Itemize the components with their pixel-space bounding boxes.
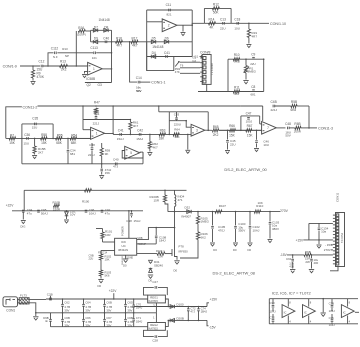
svg-text:6K8: 6K8 <box>291 108 297 112</box>
svg-text:G2: G2 <box>192 59 196 63</box>
svg-text:350V: 350V <box>238 229 245 233</box>
wire V+ rail <box>269 298 358 300</box>
wire <box>228 91 264 93</box>
ground <box>210 242 215 244</box>
svg-text:CON/1.10: CON/1.10 <box>270 22 286 26</box>
resistor R9 <box>32 66 34 70</box>
resistor R66 <box>230 129 236 132</box>
svg-text:REG2: REG2 <box>150 323 158 327</box>
wire feedback top <box>147 9 193 11</box>
svg-text:39V: 39V <box>85 309 90 313</box>
wire rail <box>146 10 148 71</box>
resistor R100B <box>164 190 166 195</box>
wire inv input <box>147 21 163 23</box>
diode D9 <box>93 40 97 44</box>
wire <box>52 124 54 138</box>
svg-text:4K7: 4K7 <box>133 124 139 128</box>
svg-text:D0: D0 <box>248 248 252 252</box>
svg-text:C30: C30 <box>270 301 276 305</box>
svg-text:R100: R100 <box>82 200 90 204</box>
svg-text:T3 CON2: T3 CON2 <box>341 232 344 243</box>
wire reg1 gnd pin <box>155 303 157 313</box>
svg-text:R7: R7 <box>10 133 14 137</box>
wire POWER <box>128 210 130 212</box>
wire <box>219 129 262 131</box>
svg-text:D0: D0 <box>233 248 237 252</box>
wire <box>103 241 115 243</box>
svg-text:10U: 10U <box>263 143 269 147</box>
svg-text:+15V: +15V <box>210 297 218 301</box>
wire <box>21 124 23 138</box>
ground <box>248 242 253 244</box>
wire <box>206 84 208 91</box>
svg-text:15AJ: 15AJ <box>117 137 124 141</box>
diode D7 <box>93 29 97 33</box>
svg-text:7: 7 <box>267 126 269 130</box>
wire inv mid <box>169 120 186 122</box>
wire <box>275 105 291 107</box>
op-amp IC5B <box>162 19 177 32</box>
svg-text:C43: C43 <box>174 113 180 117</box>
op-amp IC2D <box>125 146 140 159</box>
svg-text:8: 8 <box>289 301 291 305</box>
resistor R16 <box>78 29 85 32</box>
ground <box>246 44 251 46</box>
wire rail mid <box>36 312 157 314</box>
svg-text:39V: 39V <box>127 323 132 327</box>
resistor R103 <box>99 270 102 276</box>
svg-text:+22V: +22V <box>6 204 14 208</box>
svg-text:R47: R47 <box>94 100 100 104</box>
svg-text:15U: 15U <box>32 126 38 130</box>
resistor R108 <box>137 253 157 255</box>
wire rail <box>111 30 113 82</box>
ground mains <box>33 316 38 318</box>
svg-text:15R: 15R <box>154 199 160 203</box>
svg-text:22U: 22U <box>250 62 256 66</box>
wire loop <box>147 42 174 71</box>
svg-text:C40: C40 <box>103 36 109 40</box>
svg-text:104J: 104J <box>329 323 336 327</box>
svg-text:C112: C112 <box>51 46 59 50</box>
svg-text:4: 4 <box>289 320 291 324</box>
resistor R58 <box>41 137 48 140</box>
capacitor C8 <box>252 89 255 91</box>
capacitor C42 <box>138 133 140 136</box>
capacitor C66 <box>83 313 85 320</box>
capacitor C6B <box>104 299 106 304</box>
svg-text:200R: 200R <box>294 129 302 133</box>
svg-text:IRF830: IRF830 <box>179 250 189 254</box>
svg-text:184J: 184J <box>159 239 166 243</box>
svg-text:15AJ: 15AJ <box>134 219 141 223</box>
svg-text:KA7815: KA7815 <box>149 299 159 303</box>
svg-text:1: 1 <box>96 132 98 136</box>
wire noninv input <box>85 71 88 73</box>
svg-text:IC: IC <box>343 310 346 314</box>
svg-text:471: 471 <box>178 198 183 202</box>
svg-text:104J: 104J <box>329 309 336 313</box>
capacitor C67 <box>104 313 106 320</box>
wire <box>112 106 114 134</box>
capacitor C71 <box>133 313 135 319</box>
svg-text:DIG: DIG <box>20 225 25 229</box>
resistor R61 <box>130 134 132 136</box>
svg-text:473: 473 <box>113 164 118 168</box>
wire <box>308 106 310 128</box>
capacitor C95 <box>37 209 40 211</box>
resistor R100 <box>85 189 92 192</box>
capacitor D98 <box>50 313 52 320</box>
svg-text:D7: D7 <box>94 25 98 29</box>
wire +rail top <box>24 189 186 191</box>
wire <box>147 41 193 43</box>
resistor R102 <box>100 251 102 255</box>
svg-text:C40: C40 <box>113 158 119 162</box>
capacitor C35b <box>331 314 333 319</box>
capacitor C6B <box>62 313 64 320</box>
svg-text:4n: 4n <box>45 319 49 323</box>
svg-text:C35: C35 <box>32 117 38 121</box>
wire <box>204 7 231 9</box>
wire -15V rail <box>168 319 207 321</box>
capacitor C105 <box>212 211 214 213</box>
capacitor C35 <box>34 123 36 126</box>
capacitor C6B <box>125 313 127 320</box>
capacitor C47 <box>240 130 242 132</box>
svg-text:R17: R17 <box>132 37 138 41</box>
svg-text:CON11-2: CON11-2 <box>23 105 38 109</box>
wire <box>192 23 204 25</box>
capacitor C29 <box>49 297 52 299</box>
wire <box>289 127 295 129</box>
svg-text:681: 681 <box>70 152 75 156</box>
svg-text:- 15V: - 15V <box>325 243 332 247</box>
IC REG1 KA7815 <box>148 295 166 303</box>
svg-text:C113: C113 <box>90 46 98 50</box>
wire C112 branch <box>48 53 54 66</box>
wire <box>268 299 270 324</box>
wire <box>301 127 317 129</box>
svg-text:150R: 150R <box>53 207 61 211</box>
capacitor C11 <box>168 9 170 12</box>
svg-text:270V: 270V <box>324 248 331 252</box>
ground <box>181 32 186 34</box>
svg-text:15AJ: 15AJ <box>136 137 143 141</box>
wire output <box>177 24 192 26</box>
svg-text:50K: 50K <box>213 11 220 15</box>
svg-text:5MEG: 5MEG <box>248 70 257 74</box>
svg-text:50V: 50V <box>285 134 290 138</box>
wire <box>77 137 91 139</box>
svg-text:15K: 15K <box>9 141 16 145</box>
resistor R12 <box>212 7 219 10</box>
svg-text:C13: C13 <box>220 17 226 21</box>
svg-text:KA7915: KA7915 <box>149 327 159 331</box>
svg-text:R18: R18 <box>116 37 122 41</box>
ground <box>268 239 273 241</box>
capacitor C4B <box>272 105 274 108</box>
ground <box>64 219 69 221</box>
wire feedback bus <box>38 105 241 107</box>
capacitor C74 <box>198 306 200 308</box>
capacitor C48 <box>287 127 289 130</box>
wire rail <box>90 30 92 42</box>
svg-text:5: 5 <box>130 151 132 155</box>
svg-text:15U: 15U <box>37 68 44 72</box>
svg-text:D0: D0 <box>174 269 178 273</box>
svg-text:10AJ: 10AJ <box>89 211 96 215</box>
wire <box>227 59 229 91</box>
capacitor C72 <box>188 306 190 308</box>
trimmer PR1 <box>245 59 247 65</box>
ground <box>317 244 322 246</box>
wire output <box>105 133 114 135</box>
wire CON11 bottom <box>330 267 338 271</box>
transistor Q100 <box>171 249 173 256</box>
wire <box>142 152 144 164</box>
svg-text:221J: 221J <box>88 153 95 157</box>
wire output <box>205 129 212 131</box>
svg-text:9K: 9K <box>105 152 109 156</box>
resistor R19 <box>248 23 250 29</box>
wire HV rail <box>168 211 280 213</box>
svg-text:15K: 15K <box>229 134 236 138</box>
capacitor C34 <box>67 138 69 140</box>
wire <box>140 151 143 153</box>
capacitor C104 <box>309 222 333 224</box>
resistor R64 <box>173 133 179 136</box>
svg-text:C4B: C4B <box>271 100 277 104</box>
svg-text:18K: 18K <box>174 135 179 139</box>
svg-text:D100: D100 <box>176 302 184 306</box>
svg-text:22U: 22U <box>220 27 226 31</box>
svg-text:R10B: R10B <box>53 201 61 205</box>
wire drain column <box>174 207 176 248</box>
svg-text:C36: C36 <box>24 133 30 137</box>
svg-text:CON/1-1: CON/1-1 <box>151 81 165 85</box>
diode D8 <box>104 29 108 33</box>
capacitor C6D <box>125 299 127 304</box>
ground <box>147 152 152 154</box>
svg-text:C38: C38 <box>89 143 95 147</box>
svg-text:C18: C18 <box>234 17 240 21</box>
svg-text:15K: 15K <box>105 171 110 175</box>
ground <box>309 269 314 271</box>
wire <box>21 138 23 163</box>
wire R16 branch <box>75 31 77 66</box>
capacitor C28 <box>144 330 154 336</box>
svg-text:18K: 18K <box>159 136 166 140</box>
resistor R62 <box>149 134 151 136</box>
op-amp IC6 power <box>303 305 316 318</box>
wire feedback <box>85 82 112 84</box>
wire <box>241 105 263 107</box>
svg-text:1: 1 <box>153 316 155 320</box>
IC U9 UC3843 <box>115 238 137 255</box>
svg-text:REG1: REG1 <box>150 296 158 300</box>
svg-text:D5: D5 <box>152 37 156 41</box>
capacitor C94 <box>22 209 25 211</box>
svg-text:47u: 47u <box>105 211 110 215</box>
svg-text:39V: 39V <box>64 309 69 313</box>
wire <box>23 190 25 211</box>
wire <box>91 29 112 31</box>
capacitor C113 <box>93 52 95 55</box>
wire bus tap <box>158 106 160 112</box>
ground <box>32 155 37 157</box>
wire gnd stub <box>187 134 189 149</box>
svg-text:R16: R16 <box>78 26 84 30</box>
wire <box>140 81 150 83</box>
svg-text:4: 4 <box>349 320 351 324</box>
svg-text:C41: C41 <box>118 128 124 132</box>
resistor R107 <box>215 210 222 213</box>
ground TL072 <box>322 299 324 313</box>
svg-text:39V: 39V <box>106 323 111 327</box>
svg-text:R65: R65 <box>213 125 219 129</box>
svg-text:POWER: POWER <box>121 226 125 236</box>
diode D5 <box>151 40 155 44</box>
resistor R5B <box>291 104 297 107</box>
svg-text:R55: R55 <box>57 133 63 137</box>
svg-text:39V: 39V <box>106 309 111 313</box>
IC REG2 KA7915 <box>148 323 166 331</box>
svg-text:D0: D0 <box>98 284 102 288</box>
svg-text:5K6: 5K6 <box>105 274 110 278</box>
op-amp IC2 power <box>282 305 295 318</box>
svg-text:C91: C91 <box>286 257 292 261</box>
svg-text:C2B: C2B <box>47 292 53 296</box>
capacitor C46B <box>114 163 116 166</box>
diode D6 <box>164 40 168 44</box>
svg-text:470K: 470K <box>37 75 45 79</box>
capacitor C70 <box>133 299 135 305</box>
capacitor C73 <box>188 320 190 322</box>
svg-text:IC58B: IC58B <box>86 77 95 81</box>
svg-text:4K7: 4K7 <box>152 146 158 150</box>
wire <box>198 91 228 93</box>
capacitor C41 <box>165 55 167 58</box>
svg-text:10U: 10U <box>234 27 240 31</box>
wire <box>6 137 91 139</box>
svg-text:1N4148: 1N4148 <box>99 18 110 22</box>
ground <box>185 149 190 151</box>
svg-text:380V: 380V <box>272 227 279 231</box>
wire <box>91 41 112 43</box>
resistor R110 <box>254 210 261 213</box>
connector CON1 <box>3 297 18 307</box>
capacitor C97 <box>101 209 104 211</box>
svg-text:2K2: 2K2 <box>213 133 219 137</box>
resistor R10 <box>233 58 240 61</box>
capacitor C36 <box>26 137 28 140</box>
wire feedback <box>159 111 208 113</box>
svg-text:(100P): (100P) <box>77 32 86 36</box>
svg-text:8: 8 <box>349 301 351 305</box>
svg-text:D8: D8 <box>104 25 108 29</box>
svg-text:4: 4 <box>310 320 312 324</box>
wire output <box>102 68 111 70</box>
svg-text:1N4148: 1N4148 <box>152 45 163 49</box>
svg-text:VRB: VRB <box>138 237 143 240</box>
svg-text:Q2: Q2 <box>87 83 91 87</box>
wire feedback <box>122 151 143 159</box>
ground <box>225 150 230 152</box>
svg-text:39V: 39V <box>64 323 69 327</box>
svg-text:R5B: R5B <box>291 100 297 104</box>
svg-text:4K: 4K <box>210 26 215 30</box>
svg-text:10a: 10a <box>321 230 326 234</box>
capacitor C102 <box>249 211 251 213</box>
svg-text:22U: 22U <box>230 142 236 146</box>
wire sense <box>180 252 198 259</box>
capacitor C13 <box>222 22 224 25</box>
resistor R65 <box>212 129 219 132</box>
ground <box>98 279 103 281</box>
svg-text:30V: 30V <box>136 89 141 93</box>
resistor R47 <box>95 105 97 107</box>
svg-text:C27: C27 <box>152 280 158 284</box>
diode D4 <box>151 55 155 59</box>
capacitor C64 <box>83 299 85 304</box>
wire +15V rail <box>134 306 207 308</box>
wire output <box>276 127 285 129</box>
svg-text:22R: 22R <box>158 254 163 258</box>
wire <box>207 303 209 307</box>
wire <box>168 112 170 135</box>
svg-text:D20B: D20B <box>176 316 184 320</box>
wire IC9 pin <box>101 250 115 252</box>
svg-text:22U: 22U <box>89 257 94 261</box>
wire <box>165 299 168 307</box>
svg-text:2K7: 2K7 <box>38 150 44 154</box>
svg-text:D9: D9 <box>94 36 98 40</box>
resistor R7 <box>9 137 16 140</box>
svg-text:C12: C12 <box>39 59 45 63</box>
op-amp IC2A <box>91 127 105 139</box>
resistor R17 <box>131 40 138 43</box>
wire input <box>20 65 40 67</box>
wire C14 branch <box>130 42 137 82</box>
svg-text:R6B: R6B <box>294 122 300 126</box>
svg-text:C48: C48 <box>285 122 291 126</box>
wire reg2 gnd pin <box>155 313 157 323</box>
svg-text:10AJ: 10AJ <box>253 228 260 232</box>
capacitor C39 <box>101 163 103 165</box>
svg-text:1B4J: 1B4J <box>201 310 208 314</box>
wire C35 loop <box>22 123 53 125</box>
svg-text:R107: R107 <box>219 204 227 208</box>
svg-text:FL73: FL73 <box>20 294 27 298</box>
svg-text:4K7: 4K7 <box>234 92 240 96</box>
capacitor C46 <box>256 130 258 132</box>
svg-text:4K7: 4K7 <box>132 44 138 48</box>
svg-text:2W: 2W <box>305 260 310 264</box>
wire bottom rail <box>22 163 143 165</box>
capacitor C98 <box>131 210 133 212</box>
svg-text:C47: C47 <box>246 111 252 115</box>
ground <box>82 74 87 76</box>
svg-text:4R7: 4R7 <box>252 35 258 39</box>
svg-text:T3 CON8: T3 CON8 <box>210 63 214 75</box>
svg-text:400: 400 <box>289 264 294 268</box>
svg-text:IC2, IC6, IC7 = TL072: IC2, IC6, IC7 = TL072 <box>272 291 312 296</box>
capacitor C38 <box>91 143 93 147</box>
svg-text:104J: 104J <box>270 309 277 313</box>
resistor R54 <box>70 137 77 140</box>
resistor R6B <box>295 126 301 129</box>
